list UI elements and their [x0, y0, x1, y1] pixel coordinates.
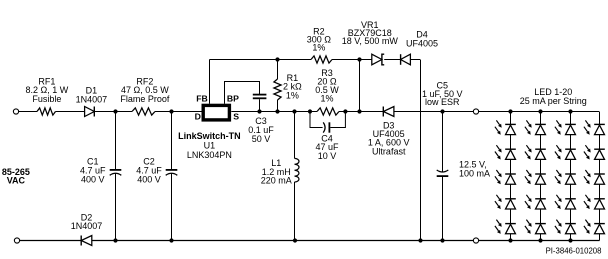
svg-text:Flame Proof: Flame Proof: [120, 94, 170, 104]
node junction: [538, 238, 542, 242]
node junction: [440, 238, 444, 242]
node: AC input terminal (neutral): [14, 238, 19, 243]
node junction: [275, 109, 279, 113]
LED string 1 diode 1: [505, 123, 516, 125]
diode D1: [85, 107, 95, 117]
wire LED string 2: [540, 112, 542, 241]
node junction: [538, 109, 542, 113]
svg-text:D: D: [195, 112, 201, 122]
wire: [92, 240, 600, 242]
LED string 2 diode 3: [535, 173, 546, 175]
wire: [384, 59, 400, 61]
diode D2: [81, 236, 92, 246]
LED string 1 diode 4: [505, 198, 516, 200]
wire LED string 1: [510, 112, 512, 241]
diode D3 UF4005: [383, 107, 394, 117]
node junction: [169, 109, 173, 113]
LED string 3 diode 3: [565, 173, 576, 175]
wire: [18, 111, 37, 113]
LED string 3 diode 2: [565, 148, 576, 150]
node junction: [418, 238, 422, 242]
node junction: [568, 109, 572, 113]
svg-text:220 mA: 220 mA: [261, 176, 292, 186]
LED string 1 diode 2: [505, 148, 516, 150]
svg-text:1%: 1%: [286, 90, 299, 100]
node junction: [357, 109, 361, 113]
svg-text:Ultrafast: Ultrafast: [372, 146, 406, 156]
svg-text:LNK304PN: LNK304PN: [187, 150, 232, 160]
LED string 3 diode 4: [565, 198, 576, 200]
node junction: [169, 238, 173, 242]
LED string 2 diode 1: [535, 123, 546, 125]
resistor RF2: [132, 108, 155, 115]
wire riser D4 to return: [420, 60, 422, 241]
inductor L1: [294, 112, 296, 159]
resistor R3: [310, 111, 317, 113]
LED string 1 diode 3: [505, 173, 516, 175]
LED string 4 diode 2: [594, 148, 605, 150]
svg-text:50 V: 50 V: [252, 134, 271, 144]
capacitor C3: [253, 94, 267, 96]
svg-text:1%: 1%: [320, 94, 333, 104]
LED string 2 diode 2: [535, 148, 546, 150]
node junction L1 tap: [292, 109, 296, 113]
node junction: [293, 238, 297, 242]
wire feedback rail: [210, 59, 312, 61]
capacitor C4: [310, 112, 323, 128]
resistor R1: [277, 60, 279, 80]
svg-text:400 V: 400 V: [137, 175, 161, 185]
node junction: [257, 109, 261, 113]
wire: [56, 111, 85, 113]
svg-text:UF4005: UF4005: [406, 39, 438, 49]
node: output terminal +: [473, 109, 478, 114]
resistor R2: [311, 56, 332, 63]
svg-text:10 V: 10 V: [318, 151, 337, 161]
LED string 4 diode 1: [594, 123, 605, 125]
node junction: [440, 109, 444, 113]
svg-text:25 mA per String: 25 mA per String: [520, 96, 587, 106]
node junction: [343, 109, 347, 113]
wire BP net: [225, 82, 260, 104]
svg-text:PI-3846-010208: PI-3846-010208: [546, 247, 602, 256]
LED string 2 diode 5: [535, 223, 546, 225]
svg-text:U1: U1: [204, 140, 216, 150]
svg-text:VAC: VAC: [7, 176, 26, 186]
wire: [155, 111, 202, 113]
wire: [95, 111, 132, 113]
node junction: [275, 57, 279, 61]
capacitor C2: [171, 112, 173, 170]
LED string 4 diode 5: [594, 223, 605, 225]
zener diode VR1 BZX79C18: [372, 54, 382, 65]
LED string 4 diode 4: [594, 198, 605, 200]
svg-text:LinkSwitch-TN: LinkSwitch-TN: [178, 131, 241, 141]
wire output rail: [394, 111, 599, 113]
node junction: [357, 57, 361, 61]
svg-text:1N4007: 1N4007: [76, 94, 108, 104]
LED string 4 diode 3: [594, 173, 605, 175]
wire: [332, 59, 372, 61]
wire: [20, 240, 82, 242]
resistor RF1: [37, 108, 56, 115]
svg-text:S: S: [233, 112, 239, 122]
svg-text:BP: BP: [227, 93, 239, 103]
wire LED string 4: [599, 112, 601, 241]
LED string 2 diode 4: [535, 198, 546, 200]
wire: [345, 111, 383, 113]
capacitor C5: [442, 112, 444, 172]
node junction: [113, 109, 117, 113]
svg-text:100 mA: 100 mA: [459, 168, 490, 178]
svg-text:400 V: 400 V: [81, 175, 105, 185]
svg-text:low ESR: low ESR: [425, 97, 460, 107]
node: AC input terminal (line): [13, 109, 18, 114]
node junction: [113, 238, 117, 242]
op-amp U1 LinkSwitch-TN LNK304PN: [203, 105, 229, 120]
node junction: [308, 109, 312, 113]
diode D4 UF4005: [401, 54, 411, 65]
svg-text:Fusible: Fusible: [32, 94, 61, 104]
node junction: [508, 109, 512, 113]
svg-text:1%: 1%: [312, 43, 325, 53]
node junction: [508, 238, 512, 242]
node junction: [568, 238, 572, 242]
wire: [410, 59, 420, 61]
svg-text:18 V, 500 mW: 18 V, 500 mW: [342, 36, 399, 46]
LED string 3 diode 1: [565, 123, 576, 125]
wire S-pin rail: [231, 111, 310, 113]
node: output return terminal: [473, 238, 478, 243]
svg-text:FB: FB: [196, 93, 208, 103]
wire LED string 3: [570, 112, 572, 241]
svg-text:1N4007: 1N4007: [71, 221, 103, 231]
capacitor C1: [115, 112, 117, 170]
LED string 1 diode 5: [505, 223, 516, 225]
wire riser: [359, 60, 361, 112]
LED string 3 diode 5: [565, 223, 576, 225]
wire FB riser: [209, 60, 211, 104]
